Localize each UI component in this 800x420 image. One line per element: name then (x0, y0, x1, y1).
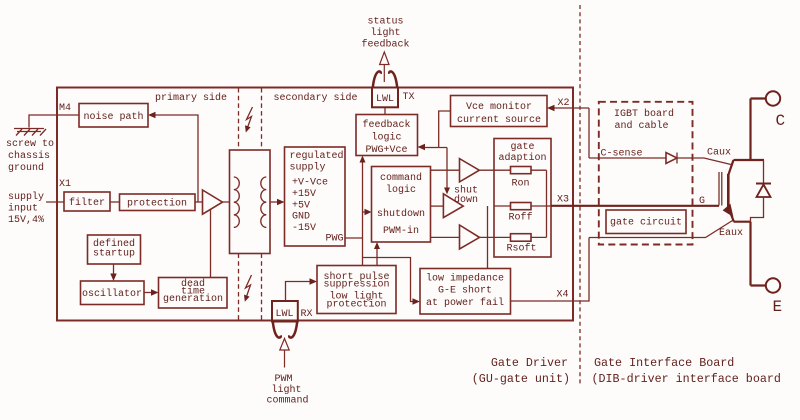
svg-text:regulated: regulated (290, 150, 344, 162)
svg-text:G-E short: G-E short (438, 285, 492, 297)
svg-text:PWM-in: PWM-in (383, 225, 419, 237)
svg-text:current source: current source (457, 115, 541, 126)
svg-text:low impedance: low impedance (426, 273, 504, 285)
svg-text:LWL: LWL (275, 309, 293, 320)
svg-text:Rsoft: Rsoft (506, 243, 536, 255)
svg-text:logic: logic (386, 184, 416, 196)
svg-text:PWG: PWG (325, 234, 343, 245)
svg-text:ground: ground (8, 162, 44, 174)
svg-text:15V,4%: 15V,4% (8, 215, 44, 226)
svg-text:command: command (380, 172, 422, 184)
svg-text:+5V: +5V (292, 201, 310, 212)
svg-text:IGBT board: IGBT board (614, 108, 674, 120)
svg-text:and cable: and cable (614, 120, 668, 132)
svg-text:X1: X1 (59, 179, 71, 190)
svg-text:G: G (699, 196, 705, 207)
svg-text:status: status (367, 17, 403, 28)
svg-text:primary side: primary side (155, 92, 227, 104)
svg-text:protection: protection (326, 299, 386, 311)
svg-text:RX: RX (301, 309, 313, 320)
svg-text:C: C (776, 112, 786, 130)
svg-text:supply: supply (290, 162, 326, 174)
svg-text:shutdown: shutdown (377, 208, 425, 220)
svg-text:Ron: Ron (511, 179, 529, 190)
svg-text:Roff: Roff (508, 212, 532, 224)
svg-text:oscillator: oscillator (82, 288, 142, 300)
svg-text:X4: X4 (557, 290, 569, 301)
svg-text:screw to: screw to (6, 139, 54, 150)
svg-text:down: down (454, 194, 478, 206)
svg-text:filter: filter (69, 197, 105, 209)
svg-text:startup: startup (93, 249, 135, 260)
svg-text:E: E (773, 298, 783, 316)
svg-text:feedback: feedback (362, 119, 410, 131)
svg-text:PWG+Vce: PWG+Vce (365, 145, 407, 156)
svg-text:Eaux: Eaux (719, 228, 743, 239)
svg-text:+V-Vce: +V-Vce (292, 178, 328, 189)
svg-text:Gate Interface Board: Gate Interface Board (594, 356, 734, 370)
svg-text:GND: GND (292, 212, 310, 223)
svg-text:X3: X3 (557, 195, 569, 206)
svg-text:gate: gate (510, 142, 534, 153)
svg-text:protection: protection (127, 198, 187, 210)
svg-text:suppression: suppression (323, 279, 389, 291)
svg-text:adaption: adaption (498, 152, 546, 164)
svg-text:TX: TX (403, 92, 415, 103)
svg-text:PWM: PWM (274, 374, 292, 385)
svg-text:gate circuit: gate circuit (610, 217, 682, 229)
svg-text:(DIB-driver interface board: (DIB-driver interface board (592, 372, 781, 386)
svg-text:-15V: -15V (292, 223, 316, 234)
svg-text:+15V: +15V (292, 189, 316, 200)
svg-text:chassis: chassis (8, 150, 50, 162)
svg-text:noise path: noise path (83, 111, 143, 123)
svg-text:light: light (271, 384, 301, 396)
svg-text:X2: X2 (558, 98, 570, 109)
svg-text:secondary side: secondary side (273, 92, 357, 104)
svg-text:at power fail: at power fail (426, 297, 504, 309)
svg-text:feedback: feedback (361, 39, 409, 51)
svg-text:light: light (370, 27, 400, 39)
svg-text:Vce monitor: Vce monitor (466, 101, 532, 113)
svg-text:supply: supply (8, 191, 44, 203)
svg-text:logic: logic (371, 132, 401, 144)
svg-text:input: input (8, 203, 38, 215)
svg-text:Caux: Caux (707, 148, 731, 159)
svg-text:Gate Driver: Gate Driver (491, 356, 568, 370)
svg-text:command: command (266, 395, 308, 407)
svg-text:LWL: LWL (376, 94, 394, 105)
svg-text:M4: M4 (59, 103, 71, 114)
svg-text:generation: generation (163, 293, 223, 305)
svg-text:(GU-gate unit): (GU-gate unit) (472, 372, 570, 386)
